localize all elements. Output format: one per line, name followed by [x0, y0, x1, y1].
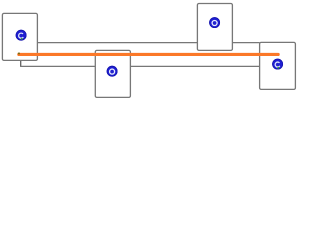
block B2 [95, 50, 130, 97]
wire net2 vertical stub from block B1 [20, 60, 22, 67]
highlighted net (orange) [19, 53, 278, 56]
wire net2 horizontal segment [20, 65, 260, 67]
block B4 [260, 42, 296, 89]
icon I2 in block B2 [107, 66, 118, 77]
block B3 [197, 4, 232, 51]
icon I1 in block B1 [16, 30, 27, 41]
olive tip at start of highlighted net [18, 53, 20, 55]
block B1 [2, 13, 37, 60]
icon I4 in block B4 [272, 59, 283, 70]
icon I3 in block B3 [209, 17, 220, 28]
wire net1 horizontal segment [37, 42, 259, 44]
